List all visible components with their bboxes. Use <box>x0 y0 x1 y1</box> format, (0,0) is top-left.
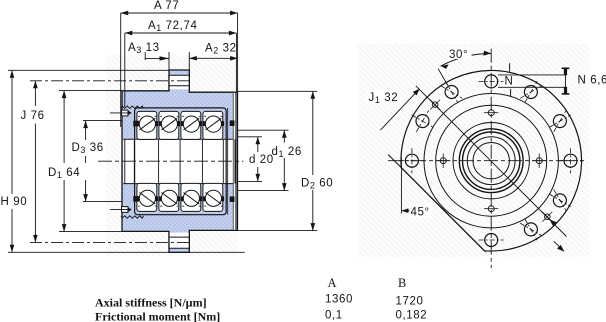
chamfer line extended <box>388 155 485 252</box>
seal right bottom <box>230 196 235 202</box>
svg-text:1360: 1360 <box>325 294 353 306</box>
thread zigzag bottom <box>121 216 144 218</box>
svg-text:A2 32: A2 32 <box>205 43 237 56</box>
svg-text:D1 64: D1 64 <box>48 167 80 180</box>
small hole right <box>536 158 542 164</box>
D1 arrows <box>62 91 67 99</box>
ball contact lines top <box>140 118 222 130</box>
bolt hole 270deg <box>485 234 498 247</box>
J dim line <box>34 81 36 243</box>
45 deg label <box>401 158 432 219</box>
washer ring inner <box>463 132 520 189</box>
svg-text:A1 72,74: A1 72,74 <box>148 20 197 33</box>
svg-text:1720: 1720 <box>396 295 424 307</box>
bearing axis centerline <box>98 160 244 162</box>
bolt hole 180deg <box>405 154 418 167</box>
svg-text:D2 60: D2 60 <box>301 178 333 191</box>
small hole bottom <box>488 206 494 212</box>
J1 leader arrow <box>381 90 419 130</box>
bolt hole 90deg <box>485 75 498 88</box>
seal left bottom <box>133 196 138 202</box>
bolt hole 300deg <box>524 223 537 236</box>
D3 arrows <box>83 121 88 129</box>
H extension lines <box>8 69 169 71</box>
bolt hole 30deg <box>553 115 566 128</box>
small hole left <box>440 158 446 164</box>
d dim line <box>257 137 259 182</box>
bolt holes ring <box>405 75 577 247</box>
d1 dim line <box>283 130 285 190</box>
bottom boss tapped hole <box>169 233 189 249</box>
svg-text:Frictional moment [Nm]: Frictional moment [Nm] <box>95 309 220 322</box>
radial tick 120deg <box>438 69 448 85</box>
N label with ticks <box>504 63 516 97</box>
J arrows <box>33 81 38 89</box>
bolt hole 150deg <box>416 115 429 128</box>
svg-text:d 20: d 20 <box>249 154 274 166</box>
svg-text:Axial stiffness [N/µm]: Axial stiffness [N/µm] <box>95 296 207 310</box>
bolt hole 120deg <box>445 86 458 99</box>
svg-text:0,1: 0,1 <box>325 309 343 321</box>
A3 arrows <box>160 56 170 60</box>
svg-text:A 77: A 77 <box>154 0 179 12</box>
small holes ring r48 <box>436 110 546 212</box>
A arrows <box>121 11 129 16</box>
d extension lines <box>238 136 262 138</box>
text J1 32 <box>367 89 401 104</box>
svg-text:N: N <box>505 75 514 87</box>
D3 dim line <box>85 121 87 202</box>
dim A 77 line <box>121 12 238 14</box>
bolt hole cross ticks <box>399 81 583 240</box>
ball pockets top row <box>137 111 157 139</box>
bore circle d <box>473 143 509 179</box>
bore band (white middle) <box>123 139 236 183</box>
svg-text:0,182: 0,182 <box>396 309 428 321</box>
housing circle <box>436 105 547 216</box>
dim A3 extension ticks <box>144 44 146 60</box>
balls bottom row <box>139 190 221 206</box>
bottom boss hole centerline (J ref) <box>30 241 191 243</box>
top boss hole centerline (J ref) <box>30 80 191 82</box>
N 6,6 dimension <box>498 68 567 94</box>
bolt hole 60deg <box>524 86 537 99</box>
dim arc <box>441 54 492 67</box>
top boss tapped hole <box>169 75 189 89</box>
svg-text:J 76: J 76 <box>21 110 45 122</box>
flange outline with 45deg flat <box>401 70 582 251</box>
bolt hole 0deg <box>564 154 577 167</box>
svg-text:N 6,6: N 6,6 <box>578 75 606 87</box>
svg-text:30°: 30° <box>449 49 468 61</box>
d1 extension lines <box>238 129 289 131</box>
dim A2 line <box>189 57 237 59</box>
svg-text:B: B <box>398 276 406 290</box>
J1 diameter line 135deg <box>416 86 567 237</box>
label backgrounds <box>0 0 329 209</box>
ball contact lines bottom <box>140 193 222 205</box>
housing body (blue) <box>122 70 238 252</box>
D2 dim line <box>312 91 314 230</box>
dim A1 extension lines <box>124 33 126 107</box>
d1 arrows <box>282 130 287 138</box>
dim A 77 extension lines <box>120 13 122 127</box>
seal left top <box>133 121 138 127</box>
dim A2 left extension tick <box>188 52 190 70</box>
ball pockets bottom row <box>137 183 157 211</box>
A2 arrows <box>189 56 197 61</box>
bore band divider lines <box>125 139 235 183</box>
30 deg dimension <box>438 47 491 85</box>
D1 extension lines <box>59 90 122 92</box>
dim texts <box>1 0 334 208</box>
race shoulder lines <box>138 116 223 206</box>
thread zigzag top <box>121 106 144 108</box>
svg-text:A3 13: A3 13 <box>128 42 160 55</box>
circle r38 <box>453 123 529 199</box>
tiny hole 315deg <box>542 212 552 222</box>
J1 far-side second arrow <box>554 241 564 251</box>
dim A3 line <box>145 57 169 59</box>
D2 arrows <box>310 91 315 99</box>
race shoulder marks bottom row <box>137 196 225 201</box>
balls top row <box>139 116 221 132</box>
H dim line <box>11 70 13 252</box>
cartridge outline <box>135 108 227 215</box>
grease fitting bottom <box>122 207 129 213</box>
horizontal centerline <box>388 160 584 162</box>
flange inner circle <box>424 94 558 228</box>
race shoulder marks top row <box>137 121 225 126</box>
svg-text:45°: 45° <box>411 207 430 219</box>
D2 extension lines <box>238 90 317 92</box>
d arrows <box>255 137 260 145</box>
H arrows <box>10 70 15 78</box>
washer ring outer <box>459 129 523 193</box>
svg-text:J1 32: J1 32 <box>369 92 399 105</box>
svg-text:A: A <box>328 276 337 290</box>
svg-text:D3 36: D3 36 <box>72 142 104 155</box>
small hole top <box>488 110 494 116</box>
D1 dim line <box>63 91 65 232</box>
svg-text:d1 26: d1 26 <box>272 146 302 159</box>
dim A1 line <box>125 32 237 34</box>
bore circle d1 <box>467 137 515 185</box>
right end-plate white strip <box>233 93 236 230</box>
D3 extension lines <box>83 120 123 122</box>
grease fitting top <box>122 110 129 116</box>
text 30deg <box>448 47 472 59</box>
vertical centerline <box>490 49 492 268</box>
A1 arrows <box>125 31 133 36</box>
J1 far-side arrowhead <box>550 219 557 226</box>
tiny hole 135deg <box>430 100 440 110</box>
seal right top <box>230 120 235 126</box>
svg-text:H 90: H 90 <box>1 196 28 208</box>
bolt hole 330deg <box>553 194 566 207</box>
arrowheads horizontal dims <box>10 11 315 253</box>
